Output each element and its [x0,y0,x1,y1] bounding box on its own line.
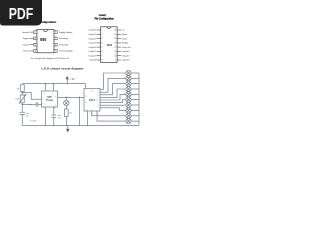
svg-text:3: 3 [35,44,36,46]
svg-text:8: 8 [87,109,88,111]
wire 555 output pin3 to 4017 clock [58,96,85,98]
svg-text:2: 2 [35,38,36,40]
svg-text:6: 6 [102,51,103,53]
node output/LED junction [66,97,67,98]
capacitor C1 plates [19,111,25,113]
svg-text:12: 12 [114,47,116,49]
4017 pin stubs left [97,30,101,60]
wire right rail [138,73,140,125]
potentiometer VR1 body [20,95,24,103]
wire C1 to bottom rail [21,114,23,125]
4017 schematic box pin numbers [85,89,99,115]
wire R2 to ground rail [65,116,67,125]
wire 555 pin4 to rail [53,84,55,91]
4017 right pin labels [122,30,131,62]
svg-text:CD4017: CD4017 [99,14,107,17]
node reset junction [79,97,80,98]
node threshold wire [30,104,31,105]
svg-text:Timer: Timer [46,98,53,102]
svg-text:8: 8 [102,60,103,62]
wire LED to resistor R2 [65,106,67,109]
svg-text:14: 14 [114,38,116,40]
wire fan q5 to LED6 [100,100,126,103]
wire junction to 555 pin2/6 with cap break [22,103,36,105]
svg-text:Output 1: Output 1 [89,33,98,36]
svg-text:10: 10 [114,55,116,57]
svg-text:555: 555 [40,37,47,42]
wire 4017 bottom pin to LED10 row [97,111,126,121]
svg-text:L.E.D chaser circuit diagram: L.E.D chaser circuit diagram [42,66,84,70]
node 555 pin5 junction [53,107,54,108]
svg-text:Supply Voltage: Supply Voltage [59,31,73,34]
svg-text:Pin configuration diagram of 5: Pin configuration diagram of 555 Timer I… [31,57,70,60]
svg-text:14: 14 [85,96,87,98]
wire ground bottom rail [22,124,139,126]
svg-text:50K: 50K [15,99,19,101]
svg-text:1: 1 [102,30,103,32]
555 schematic box pin numbers [43,93,57,107]
node rail junctions [45,83,46,84]
wire 4017 bottom pin to LED9 row [92,111,126,116]
svg-text:15: 15 [85,102,87,104]
page background [0,0,149,198]
svg-text:Reset: Reset [23,50,29,53]
svg-text:9: 9 [92,114,93,116]
IC U2 CD4017 DIP-16 body [101,27,118,63]
svg-text:Trigger: Trigger [22,38,29,40]
svg-text:Output 8: Output 8 [122,59,131,62]
svg-text:4: 4 [102,43,103,45]
wire +9V top rail [22,83,85,85]
4017 pin numbers left 1-8 [102,30,103,62]
svg-text:+ 9V: + 9V [70,77,76,81]
IC U1 555 timer DIP-8 body [37,30,54,53]
555 pin boxes [34,31,57,53]
svg-text:5: 5 [102,47,103,49]
wire C2 to ground [53,117,55,125]
svg-text:7: 7 [102,55,103,57]
555 left pin arrows [29,32,34,51]
capacitor C2 plates [52,114,56,116]
node pot bottom [22,104,23,105]
4017 pin numbers right 16-9 [114,30,116,62]
svg-text:Output 5: Output 5 [89,29,98,32]
svg-text:2: 2 [102,34,103,36]
svg-text:16: 16 [114,30,116,32]
svg-text:Output 0: Output 0 [89,37,98,40]
svg-text:15: 15 [114,34,116,36]
svg-text:8: 8 [55,32,56,34]
svg-text:Threshold: Threshold [59,44,68,46]
svg-text:Pin Configuration: Pin Configuration [95,17,115,20]
svg-text:5: 5 [55,51,56,53]
node R1/pot junction [22,92,23,93]
wire 555 pin8 to rail [45,84,47,91]
wire junction to 555 pin7 [22,93,41,100]
svg-text:1: 1 [35,32,36,34]
wire fan q6 to LED7 [100,104,126,106]
svg-text:Output 6: Output 6 [89,46,98,49]
wire fan q4 to LED5 [100,94,126,100]
node ground rail junctions [45,125,46,126]
svg-text:11: 11 [98,114,100,116]
svg-text:3: 3 [102,38,103,40]
wire pot bottom junction [21,103,23,112]
svg-text:Output 3: Output 3 [89,54,98,57]
wire 4017 gnd pin to rail [87,111,89,125]
svg-text:Clock: Clock [122,38,127,40]
svg-text:Ground: Ground [90,60,97,62]
wire fan q1 to LED2 [100,78,126,92]
svg-text:Control Voltage: Control Voltage [59,50,74,53]
svg-text:Reset: Reset [122,33,128,36]
svg-text:Enable: Enable [122,43,129,45]
wire R1 bottom to pot [21,91,23,95]
svg-text:4017: 4017 [89,98,96,102]
555 left pin labels [22,32,29,53]
svg-text:Output 2: Output 2 [89,42,98,45]
svg-text:11: 11 [115,51,117,53]
svg-text:3: 3 [55,96,56,98]
wire 555 pin1 to ground [44,107,46,125]
svg-text:PDF: PDF [9,6,34,23]
IC U1 555 box [42,91,58,107]
svg-text:7: 7 [55,38,56,40]
wire LED cathodes to right rail [131,73,139,121]
potentiometer VR1 wiper arrow [19,95,26,104]
svg-text:13: 13 [114,43,116,45]
wire 4017 reset to ground [79,97,81,125]
resistor R2 body [65,109,69,116]
capacitor C3 0.01u plates [35,102,37,106]
4017 left pin labels [89,29,98,62]
svg-text:0.01uF: 0.01uF [30,121,37,123]
svg-text:9: 9 [115,60,116,62]
svg-text:Output 4: Output 4 [122,54,131,57]
svg-text:555: 555 [47,95,52,99]
LED D1 indicator [64,100,69,105]
svg-text:Output 9: Output 9 [122,50,131,53]
wire 555 pin5 cap branch upper [53,107,55,115]
svg-text:16: 16 [91,90,93,92]
svg-text:10: 10 [97,100,99,102]
wire fan q3 to LED4 [100,89,126,97]
resistor R1 body [20,85,24,92]
PDF badge [0,0,42,26]
wire fan q2 to LED3 [100,84,126,95]
svg-text:4017: 4017 [107,43,113,47]
555 pin numbers [35,32,56,53]
svg-text:Ground: Ground [22,32,29,34]
svg-text:4: 4 [35,51,36,53]
wire fan q7 to LED8 [100,108,126,111]
LED column D2-D11 [126,70,131,123]
svg-text:Discharge: Discharge [59,38,69,40]
555 right pin labels [59,31,74,53]
power arrow +9V [66,78,68,84]
wire fan q0 to LED1 [100,73,126,90]
svg-text:Output: Output [23,43,29,46]
svg-text:5: 5 [55,105,56,107]
wire junction to LED D1 [65,97,67,100]
svg-text:6: 6 [55,44,56,46]
ground arrow below rail [67,125,69,130]
IC U2 4017 box [84,89,100,112]
svg-text:Carry Out: Carry Out [122,46,131,49]
4017 pin stubs right [117,30,121,60]
wire rail to 4017 vdd pin [84,84,86,89]
svg-text:Output 7: Output 7 [89,50,98,53]
